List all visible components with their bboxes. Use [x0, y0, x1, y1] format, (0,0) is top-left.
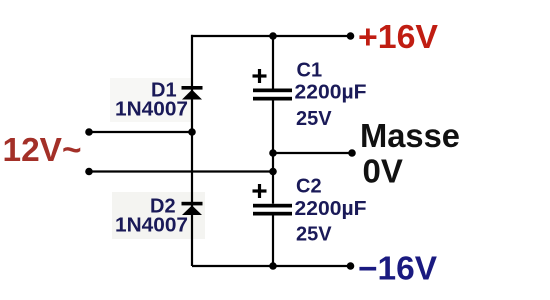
svg-text:1N4007: 1N4007	[115, 99, 188, 121]
wire top rail	[191, 35, 351, 37]
diode D1	[182, 86, 203, 100]
svg-text:0V: 0V	[363, 153, 403, 190]
node: junction bottom rail and C2 branch	[269, 262, 277, 270]
wire right vertical between C1 and C2	[272, 101, 274, 204]
svg-text:−16V: −16V	[358, 250, 437, 287]
svg-text:2200µF: 2200µF	[295, 82, 367, 104]
svg-text:C2: C2	[296, 175, 322, 197]
svg-text:C1: C1	[297, 59, 323, 81]
svg-text:1N4007: 1N4007	[115, 214, 188, 236]
svg-text:+16V: +16V	[358, 18, 438, 55]
diode D2	[182, 202, 203, 215]
wire left vertical branch	[191, 35, 193, 266]
node: junction D1/D2 with upper AC wire	[188, 128, 196, 136]
wire right vertical below C2	[272, 216, 274, 267]
node: junction Masse stub on C branch	[269, 149, 277, 157]
node: AC upper terminal	[85, 128, 93, 136]
svg-text:2200µF: 2200µF	[295, 198, 367, 220]
node: +16V terminal	[347, 32, 355, 40]
wire lower AC input	[89, 170, 273, 172]
node: -16V terminal	[347, 262, 355, 270]
wire bottom rail	[192, 265, 351, 267]
node: AC lower terminal	[85, 168, 93, 176]
svg-text:25V: 25V	[296, 108, 332, 130]
node: Masse terminal	[348, 149, 356, 157]
node: junction lower AC wire on C branch	[269, 168, 277, 176]
svg-text:12V~: 12V~	[3, 131, 82, 168]
wire right vertical above C1	[272, 35, 274, 89]
capacitor C2	[253, 184, 293, 216]
capacitor C1	[253, 69, 293, 101]
svg-text:Masse: Masse	[360, 117, 460, 154]
wire Masse stub	[273, 152, 352, 154]
svg-text:25V: 25V	[296, 223, 332, 245]
node: junction top rail and C1 branch	[269, 32, 277, 40]
wire upper AC input	[89, 131, 192, 133]
